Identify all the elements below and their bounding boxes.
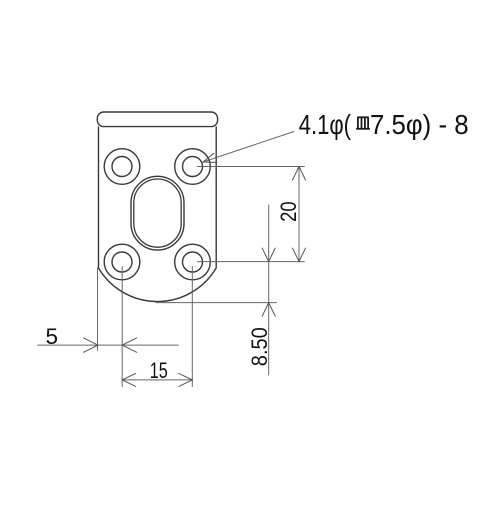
arrow 5 left (84, 338, 99, 352)
kanji sara (countersink) glyph (356, 117, 370, 129)
extension line left edge vertical (97, 268, 99, 351)
svg-text:8.50: 8.50 (247, 327, 272, 366)
arrow 15 left (122, 373, 136, 386)
slot outer (131, 176, 184, 250)
dimension line 8.50 (268, 205, 270, 375)
dimension line 20 (298, 167, 300, 262)
arrow 20 top (293, 167, 306, 181)
extension line hole-right-center vertical (191, 267, 193, 387)
hole top-left outer (104, 149, 140, 185)
arrow 5 right (122, 338, 137, 352)
leader arrowhead (203, 153, 217, 162)
dimension line 15 (122, 379, 192, 381)
hole bottom-right outer (175, 244, 211, 280)
arrow 8.50 lower (points up) (262, 303, 275, 317)
arrow 8.50 upper (points down) (262, 248, 275, 262)
slot inner (134, 179, 181, 247)
svg-text:7.5φ) - 8: 7.5φ) - 8 (370, 109, 469, 140)
hole bottom-left inner (112, 252, 132, 272)
svg-text:4.1φ(: 4.1φ( (299, 109, 352, 140)
extension line bottom-hole horizontal (198, 261, 305, 263)
plate top flange (97, 112, 217, 127)
hole bottom-right inner (183, 252, 203, 272)
hole top-right outer (175, 149, 211, 185)
hole top-right inner (183, 157, 203, 177)
hole top-left inner (112, 157, 132, 177)
extension line plate-bottom horizontal (156, 302, 277, 304)
arrow 20 bottom (293, 248, 306, 262)
dimension line 5 (38, 344, 179, 346)
extension line top-hole horizontal (198, 166, 305, 168)
hole bottom-left outer (104, 244, 140, 280)
plate body outline (99, 127, 217, 302)
extension line hole-left-center vertical (121, 267, 123, 387)
svg-text:20: 20 (276, 201, 301, 222)
svg-text:5: 5 (45, 324, 58, 349)
arrow 15 right (179, 373, 193, 386)
leader line (203, 132, 294, 163)
svg-text:15: 15 (150, 358, 168, 383)
